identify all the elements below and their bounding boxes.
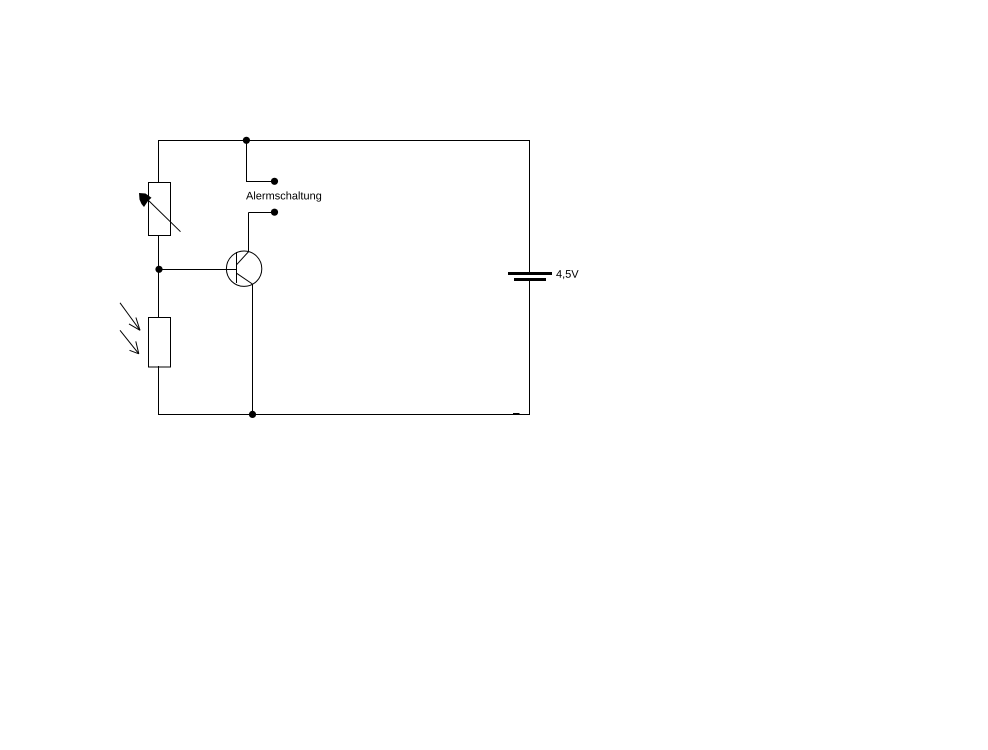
wire: right vertical, top rail to battery [529, 140, 531, 273]
transistor Q1 emitter diagonal [237, 273, 253, 284]
node: top rail junction dot [243, 137, 250, 144]
wire: emitter vertical to bottom rail [252, 284, 254, 415]
label: 4,5V [556, 270, 578, 279]
wire: bottom rail overlap jog near right corner [513, 413, 520, 414]
wire: alarm stub 2 horizontal [249, 212, 275, 214]
wire: collector wire vertical [248, 213, 250, 253]
LDR R2 body [149, 318, 171, 368]
potentiometer R1 adjustment diagonal [147, 199, 181, 232]
wire: left vertical, potentiometer to LDR [158, 235, 160, 318]
wire: bottom horizontal rail [158, 414, 530, 416]
LDR light arrow 1 barb a [136, 318, 140, 331]
node: alarm stub 1 terminal dot [271, 178, 278, 185]
wire: alarm stub 1 horizontal [246, 181, 275, 183]
transistor Q1 base bar [236, 252, 238, 283]
LDR light arrow 2 shaft [120, 330, 139, 354]
node: emitter/bottom-rail junction dot [249, 411, 256, 418]
transistor Q1 collector diagonal [237, 252, 249, 265]
wire: top horizontal rail [158, 140, 530, 142]
node: alarm stub 2 terminal dot [271, 209, 278, 216]
transistor Q1 circle [226, 251, 261, 286]
LDR light arrow 2 barb b [130, 350, 139, 354]
LDR light arrow 1 barb b [129, 324, 140, 330]
wire: base wire to transistor [159, 269, 237, 271]
LDR light arrow 2 barb a [136, 341, 139, 353]
wire: alarm stub 1 vertical [246, 141, 248, 183]
label: Alermschaltung [246, 191, 321, 201]
LDR light arrow 1 shaft [120, 303, 140, 331]
node: base junction dot [155, 266, 162, 273]
potentiometer R1 body [149, 183, 171, 236]
potentiometer R1 arrowhead [139, 193, 152, 207]
wire: left vertical, top rail to potentiometer [158, 140, 160, 183]
wire: right vertical, battery to bottom rail [529, 281, 531, 416]
wire: left vertical, LDR to bottom rail [158, 366, 160, 415]
battery B1 short plate [514, 278, 546, 281]
battery B1 long plate [508, 272, 552, 275]
